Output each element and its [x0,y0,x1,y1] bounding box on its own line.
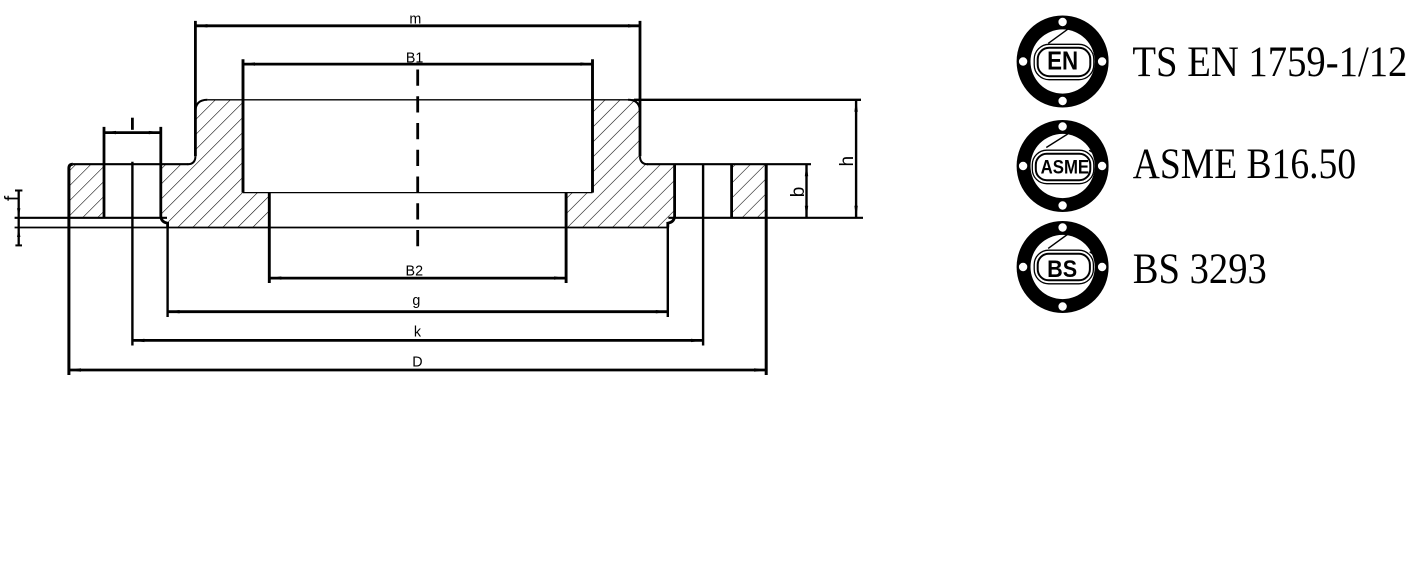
flange OD right edge [765,164,768,375]
main vertical centerline dashed [416,70,419,247]
svg-text:ASME: ASME [1041,157,1090,178]
hub left top fillet [195,100,207,112]
hub right base fillet [640,156,648,164]
dimension B1 [243,51,593,67]
flange bottom face right edge [668,217,863,219]
dimension b [788,164,809,218]
raised face bottom edge [15,227,668,229]
logo EN flange icon [1017,16,1109,108]
bore B1 left edge with extension [242,59,245,192]
svg-text:B1: B1 [406,51,424,67]
dimension m [195,12,640,28]
right bolt hole centerline [702,164,704,345]
hub left edge with m extension [194,21,197,156]
dimension D [69,354,766,371]
svg-text:TS EN 1759-1/12: TS EN 1759-1/12 [1132,38,1407,86]
hub right edge with m extension [639,21,642,156]
flange OD left edge [69,164,73,375]
hub top face edge [207,99,634,101]
bore B2 left edge with extension [268,193,271,283]
dimension g [168,293,668,313]
raised face right edge extension [667,228,669,318]
hatched section: right main body [566,100,675,228]
dimension B2 [269,263,566,280]
bore B1 right edge with extension [591,59,594,192]
bore B2 right edge with extension [565,193,568,283]
hub right top fillet [628,100,640,112]
svg-text:h: h [837,156,858,167]
svg-text:ASME B16.50: ASME B16.50 [1133,140,1356,188]
svg-text:B2: B2 [406,263,424,279]
svg-text:BS: BS [1047,256,1077,283]
logo BS flange icon [1017,221,1109,313]
flange top face right edge [647,163,811,165]
dimension l [104,118,161,135]
left bolt hole inner edge with raised-face fillet [161,127,168,228]
dimension f [2,191,23,246]
svg-text:D: D [412,354,422,370]
flange bottom face left edge [15,217,167,219]
logo ASME flange icon [1017,120,1109,212]
left bolt hole centerline [131,162,133,346]
svg-text:EN: EN [1047,45,1078,75]
left bolt hole outer edge [103,127,106,218]
raised face left edge extension [166,228,168,318]
hub left base fillet [187,156,195,164]
hatched section: left outer ring segment [69,164,104,218]
socket shoulder edge [243,192,593,194]
right bolt hole outer edge [730,164,733,218]
dimension h [837,100,858,218]
hatched section: right outer ring segment [732,164,767,218]
hatched section: left main body [161,100,269,228]
dimension k [132,324,703,342]
svg-text:g: g [412,293,420,309]
svg-text:m: m [409,12,421,28]
flange top face left edge [73,163,188,165]
svg-text:BS 3293: BS 3293 [1133,245,1267,293]
svg-text:k: k [414,324,422,340]
svg-text:f: f [2,195,23,201]
svg-text:b: b [788,187,809,198]
right bolt hole inner edge with raised-face fillet [668,164,675,227]
